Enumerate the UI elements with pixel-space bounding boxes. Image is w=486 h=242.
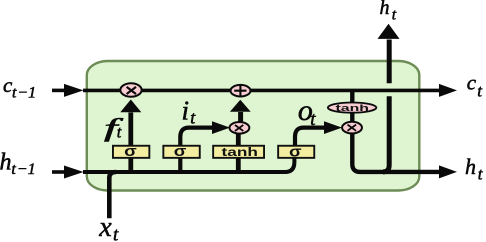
svg-text:h: h: [380, 0, 390, 19]
svg-text:x: x: [98, 212, 112, 242]
wire: x_t rising into h line: [109, 172, 116, 218]
gate sigma1 box: [113, 146, 149, 158]
arrowhead: h(t-1) into cell: [64, 166, 84, 179]
svg-text:t: t: [113, 224, 119, 242]
arrowhead: into plus circle: [230, 100, 251, 112]
svg-text:i: i: [182, 96, 190, 126]
arrowhead: c_t output: [439, 84, 457, 97]
svg-text:σ: σ: [174, 143, 187, 160]
svg-text:t: t: [310, 109, 316, 130]
x-circle1 (forget multiply): [120, 83, 141, 97]
wire: h line to sigma3 elbow: [83, 158, 294, 172]
wire: h_t branch up (upper part, after hop over c line): [387, 40, 392, 84]
svg-text:t: t: [11, 161, 16, 178]
gate sigma2 box: [163, 146, 199, 158]
svg-text:−1: −1: [17, 84, 36, 101]
arrowhead: c(t-1) into cell: [64, 84, 84, 97]
arrowhead: f_t into x-circle: [120, 100, 141, 113]
svg-text:t: t: [12, 84, 17, 101]
svg-text:tanh: tanh: [222, 145, 258, 159]
gate sigma3 box: [278, 146, 314, 158]
svg-text:σ: σ: [289, 143, 302, 160]
svg-text:t: t: [117, 122, 122, 141]
wire: c branch down through tanh ellipse: [350, 90, 354, 123]
wire: h(t-1) input shaft: [52, 170, 66, 174]
wire: f_t gate vertical: [128, 113, 133, 173]
wire: tanh gate vertical: [236, 130, 241, 172]
svg-text:h: h: [0, 150, 12, 176]
wire: x-circle3 output to h line right: [352, 132, 440, 172]
LSTM cell body: [87, 61, 420, 191]
wire: c line across cell: [83, 89, 440, 93]
plus circle (cell state add): [231, 85, 251, 97]
tanh ellipse: [328, 103, 376, 113]
wire: o_t gate vertical and elbow: [295, 128, 325, 146]
svg-text:c: c: [467, 71, 477, 95]
svg-text:−1: −1: [17, 161, 36, 178]
wire: x-circle2 up to plus: [238, 112, 243, 122]
svg-text:σ: σ: [124, 143, 137, 160]
wire: c(t-1) input shaft: [52, 89, 66, 93]
arrowhead: o_t into x-circle3: [324, 121, 342, 134]
wire: h_t branch up (lower part, fillet): [383, 96, 389, 172]
gate tanh box: [213, 146, 264, 158]
svg-text:t: t: [392, 6, 397, 23]
arrowhead: h_t right output: [439, 165, 457, 178]
x-circle3 (output multiply): [342, 122, 362, 134]
svg-text:h: h: [465, 154, 476, 179]
svg-text:tanh: tanh: [336, 103, 370, 114]
wire: i_t gate vertical and elbow: [180, 128, 213, 172]
x-circle2 (input multiply): [229, 122, 249, 134]
arrowhead: h_t top output: [378, 24, 400, 39]
arrowhead: i_t into x-circle2: [212, 121, 230, 134]
